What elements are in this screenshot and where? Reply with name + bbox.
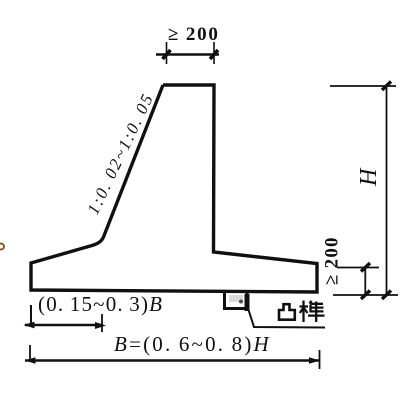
toe dim: left arrowhead xyxy=(24,322,35,329)
toe dim: right extension line xyxy=(101,314,103,332)
tenon interior dot xyxy=(239,300,243,304)
base dim: left arrowhead xyxy=(25,357,36,364)
glyph sun: right part xyxy=(308,301,325,322)
toe dim: right arrowhead xyxy=(95,322,106,329)
tenon leader line xyxy=(246,302,325,328)
top dim: left extension line xyxy=(166,42,168,64)
base dim: right arrowhead xyxy=(309,357,320,363)
svg-text:≥ 200: ≥ 200 xyxy=(168,24,220,45)
H dim: top extension line xyxy=(330,85,396,87)
top dim: left tick xyxy=(163,50,171,59)
right dim: top tick xyxy=(361,263,370,272)
svg-text:≥ 200: ≥ 200 xyxy=(322,236,343,285)
svg-text:(0. 15~0. 3)B: (0. 15~0. 3)B xyxy=(38,292,163,316)
H dim: dimension line xyxy=(386,86,388,295)
right dim: bottom tick xyxy=(361,291,370,300)
toe dim: left extension line xyxy=(30,305,32,325)
H dim: bottom tick xyxy=(382,291,391,300)
svg-text:B=(0. 6~0. 8)H: B=(0. 6~0. 8)H xyxy=(114,332,271,356)
base dim: dimension line xyxy=(25,359,320,361)
retaining wall outline (stem + base slab) xyxy=(31,85,317,292)
glyph sun: wood radical xyxy=(300,301,309,323)
top dim: dimension line xyxy=(156,53,219,55)
right dim: top extension line xyxy=(337,267,379,269)
base dim: right extension line xyxy=(319,350,321,369)
H dim: top tick xyxy=(382,82,391,91)
tenon key box under base xyxy=(225,292,248,309)
right dim / H dim: bottom extension line xyxy=(333,294,398,296)
svg-text:H: H xyxy=(356,167,382,187)
tenon right edge (thick) xyxy=(245,294,250,311)
svg-text:1:0. 02~1:0. 05: 1:0. 02~1:0. 05 xyxy=(83,90,157,218)
top dim: right tick xyxy=(210,50,218,59)
tenon label (drawn CJK glyphs for tu-sun) xyxy=(279,301,325,323)
toe dim: dimension line xyxy=(25,324,103,327)
glyph tu (convex) xyxy=(279,303,295,320)
base dim: left extension line xyxy=(29,345,31,360)
tenon interior shading xyxy=(229,295,243,302)
right dim: dimension line xyxy=(364,268,366,296)
top dim: right extension line xyxy=(213,42,215,64)
small red-brown mark at left page edge xyxy=(0,244,4,250)
